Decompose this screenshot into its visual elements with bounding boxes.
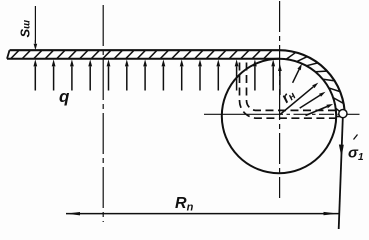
svg-text:q: q [59, 87, 70, 106]
